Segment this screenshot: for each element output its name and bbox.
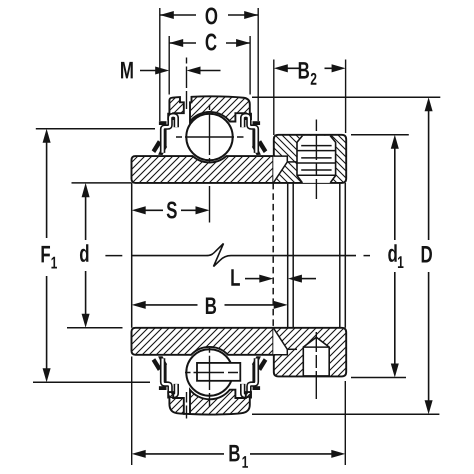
ball top crosshair — [176, 105, 244, 162]
ball top — [186, 114, 232, 160]
shaft axis with break symbol — [105, 255, 122, 257]
rubber prong 2 — [158, 144, 167, 155]
ball bottom crosshair — [185, 348, 238, 407]
dimension L — [231, 269, 316, 286]
ball bottom cage rectangle — [197, 363, 240, 381]
rubber prong 1 — [152, 140, 162, 153]
inner ring top band — [132, 156, 274, 183]
outer ring top section right chunk — [190, 96, 251, 121]
lube hole bottom centerline — [186, 392, 188, 419]
collar top — [274, 135, 346, 183]
collar recess hidden edge (dashed) — [272, 183, 274, 328]
dimension B — [132, 297, 288, 314]
collar recess silhouette line — [292, 183, 294, 328]
seal assembly top-right — [243, 116, 268, 156]
metal seal channel — [163, 116, 177, 153]
set screw hole bottom (pentagon) — [303, 337, 329, 376]
set screw hole top (threaded) — [297, 135, 336, 183]
dimension d1 — [351, 135, 409, 378]
rubber side bar — [164, 129, 167, 150]
dimension B2 — [274, 60, 346, 136]
dimension d — [67, 183, 132, 328]
outer ring top section left chunk — [168, 97, 184, 119]
collar right silhouette line — [339, 183, 341, 328]
collar recess white notch bottom — [273, 328, 287, 355]
thread lines top — [297, 146, 336, 176]
dimension O — [160, 7, 258, 121]
set screw centerline top — [315, 120, 317, 200]
collar recess white notch top — [273, 156, 287, 183]
set screw centerline bottom — [315, 332, 317, 399]
dimension M — [121, 62, 220, 79]
collar right face line — [344, 183, 346, 328]
seal assembly top-left — [152, 116, 177, 156]
seal assembly bottom-left — [152, 356, 177, 396]
collar recess seat line bottom — [287, 348, 297, 350]
collar bottom — [274, 328, 346, 377]
slot centerline (M datum) — [186, 58, 188, 110]
outer ring bottom section left chunk — [168, 392, 184, 414]
dimension B1 — [132, 357, 346, 468]
outer ring bottom section right chunk — [190, 390, 251, 415]
dimension D — [252, 97, 440, 414]
ball bottom — [186, 349, 232, 395]
seal assembly bottom-right — [243, 356, 268, 396]
dimension F1 — [33, 129, 155, 382]
collar recess seat line top — [287, 161, 297, 163]
dimension C — [169, 34, 250, 95]
rubber top block — [159, 121, 167, 125]
inner ring left face / B extension — [131, 183, 133, 328]
inner ring bottom band — [132, 328, 274, 355]
bottom face line across lube hole — [183, 413, 191, 415]
inner ring right face line — [287, 183, 289, 328]
dimension S — [132, 186, 210, 223]
